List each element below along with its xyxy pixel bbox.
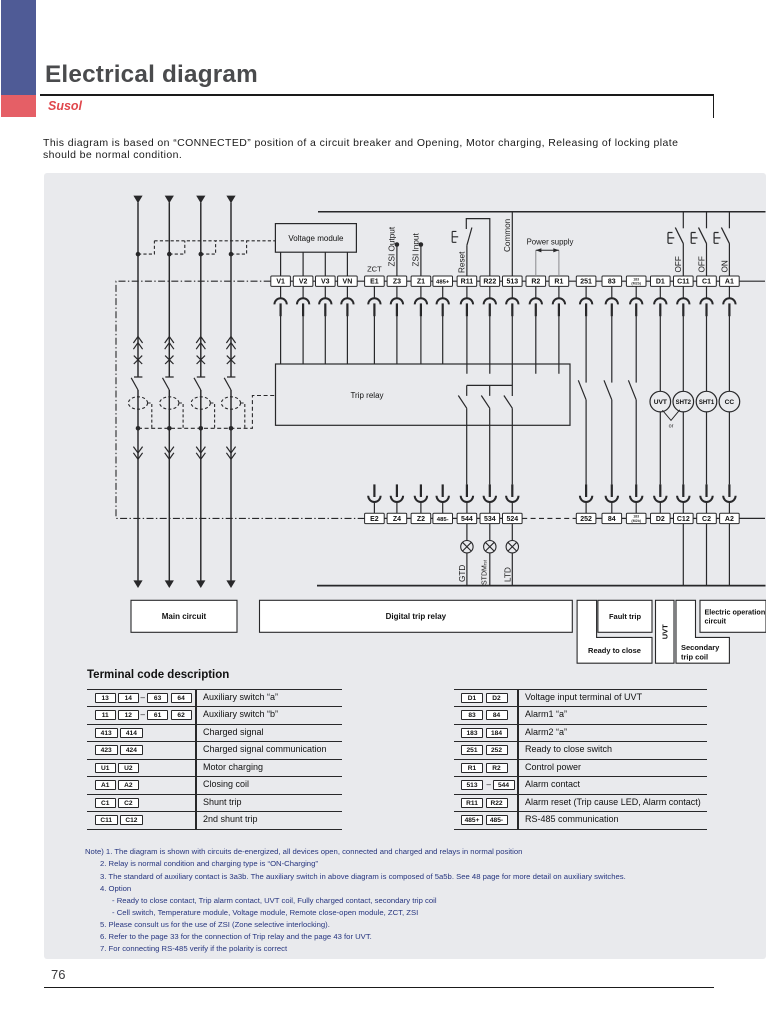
phase 2 CT dashed lead xyxy=(179,403,183,428)
wire UVT down xyxy=(659,412,661,485)
svg-text:circuit: circuit xyxy=(705,616,727,625)
secondary disconnect below E1 xyxy=(368,286,380,316)
Susol brand xyxy=(48,99,82,113)
svg-text:(M2b): (M2b) xyxy=(631,519,641,523)
wire contact to lamp terminal xyxy=(466,408,468,484)
terminal 84 xyxy=(602,513,622,523)
svg-text:D1: D1 xyxy=(656,279,665,286)
title rule xyxy=(40,94,714,96)
wire CC down xyxy=(728,412,730,485)
secondary disconnect below VN xyxy=(341,286,353,316)
svg-text:485-: 485- xyxy=(437,517,449,523)
svg-text:R2: R2 xyxy=(531,279,540,286)
secondary disconnect below R1 xyxy=(553,286,565,316)
secondary disconnect above 485- xyxy=(437,484,449,513)
wire LTD lamp upper xyxy=(511,524,513,541)
phase 3 drawout chevrons lower xyxy=(196,447,205,460)
phase 4 incoming arrow xyxy=(226,196,235,204)
phase 3 drawout chevrons upper xyxy=(196,337,205,350)
svg-text:Z4: Z4 xyxy=(393,516,401,523)
phase 2 current transformer xyxy=(160,397,179,409)
wire LTD lamp to rail xyxy=(511,553,513,586)
svg-text:513: 513 xyxy=(506,279,518,286)
phase 1 outgoing arrow xyxy=(133,580,142,588)
wire Z1 to trip relay xyxy=(420,316,422,364)
phase 2 junction dot (CT bus) xyxy=(167,426,172,431)
wire V1 to trip relay xyxy=(280,316,282,364)
secondary disconnect below 485+ xyxy=(437,286,449,316)
svg-text:UVT: UVT xyxy=(661,624,670,639)
svg-text:LTD: LTD xyxy=(503,567,512,582)
terminal R1 xyxy=(549,276,569,286)
terminal E1 xyxy=(365,276,385,286)
svg-text:OFF: OFF xyxy=(674,256,683,272)
header blue tab xyxy=(1,0,36,95)
wire R22 to trip relay xyxy=(489,316,491,364)
phase 3 test position cross xyxy=(197,356,205,364)
phase 1 current transformer xyxy=(128,397,147,409)
svg-text:E2: E2 xyxy=(370,516,379,523)
intro paragraph xyxy=(43,137,693,163)
secondary disconnect above 252 xyxy=(580,484,592,513)
svg-text:V1: V1 xyxy=(276,279,285,286)
svg-text:C1: C1 xyxy=(702,279,711,286)
svg-text:Ready to close: Ready to close xyxy=(588,646,641,655)
svg-text:ZCT: ZCT xyxy=(367,264,382,273)
terminal 83 xyxy=(602,276,622,286)
secondary disconnect below 183t xyxy=(630,286,642,316)
wire A1 to coil xyxy=(728,316,730,391)
page number xyxy=(51,967,65,982)
svg-text:524: 524 xyxy=(506,516,518,523)
wire voltage module to V3 xyxy=(324,252,326,276)
terminal C1 xyxy=(697,276,717,286)
secondary disconnect below Z1 xyxy=(415,286,427,316)
terminal 183b xyxy=(626,513,646,523)
secondary disconnect below D1 xyxy=(654,286,666,316)
svg-text:or: or xyxy=(669,423,674,429)
bottom row dashed gap 524-252 xyxy=(522,517,576,519)
wire R1 to trip relay xyxy=(558,316,560,364)
secondary disconnect above D2 xyxy=(654,484,666,513)
wire 513 to trip relay xyxy=(511,316,513,364)
trip relay 513 feeder and bracket xyxy=(467,364,513,396)
page title xyxy=(45,61,258,89)
power supply wires R2 R1 xyxy=(535,250,537,276)
secondary disconnect below R22 xyxy=(484,286,496,316)
phase 2 drawout chevrons upper xyxy=(165,337,174,350)
svg-text:485+: 485+ xyxy=(436,280,450,286)
bottom control rail xyxy=(317,585,766,587)
wire C11 to coil xyxy=(682,316,684,391)
top control rail xyxy=(318,211,766,213)
secondary disconnect below 251 xyxy=(580,286,592,316)
phase 3 junction dot (voltage tap) xyxy=(199,252,204,257)
svg-text:Voltage module: Voltage module xyxy=(288,234,344,243)
svg-text:V2: V2 xyxy=(299,279,308,286)
phase 1 junction dot (voltage tap) xyxy=(136,252,141,257)
secondary disconnect above E2 xyxy=(368,484,380,513)
wire C2 to bottom rail xyxy=(706,524,708,586)
terminal code table right xyxy=(454,689,707,829)
svg-text:CC: CC xyxy=(725,399,735,406)
svg-text:Common: Common xyxy=(503,218,512,252)
label Secondary trip coil (L-shape) xyxy=(676,600,729,663)
phase 3 current transformer xyxy=(191,397,210,409)
secondary disconnect above 534 xyxy=(484,484,496,513)
svg-text:VN: VN xyxy=(343,279,353,286)
pushbutton ON above A1 xyxy=(714,212,729,276)
wire SHT1 down xyxy=(706,412,708,485)
svg-text:Digital trip relay: Digital trip relay xyxy=(386,612,447,621)
secondary disconnect above 183b xyxy=(630,484,642,513)
phase 2 incoming arrow xyxy=(165,196,174,204)
phase 2 test position cross xyxy=(165,356,173,364)
terminal D1 xyxy=(651,276,671,286)
label UVT xyxy=(656,600,675,663)
phase 1 incoming arrow xyxy=(133,196,142,204)
terminal Z2 xyxy=(411,513,431,523)
phase 4 outgoing arrow xyxy=(226,580,235,588)
phase 4 voltage tap dashed jog xyxy=(231,241,247,254)
terminal A2 xyxy=(720,513,740,523)
svg-text:534: 534 xyxy=(484,516,496,523)
svg-text:UVT: UVT xyxy=(654,399,667,406)
terminal V2 xyxy=(293,276,313,286)
terminal Z4 xyxy=(387,513,407,523)
wire V3 to trip relay xyxy=(324,316,326,364)
svg-text:Z3: Z3 xyxy=(393,279,401,286)
phase 4 junction dot (voltage tap) xyxy=(229,252,234,257)
terminal 524 xyxy=(503,513,523,523)
svg-text:544: 544 xyxy=(461,516,473,523)
svg-text:251: 251 xyxy=(580,279,592,286)
wire voltage module to V2 xyxy=(302,252,304,276)
terminal C12 xyxy=(674,513,694,523)
wire voltage module to VN xyxy=(346,252,348,276)
phase 3 CT dashed lead xyxy=(210,403,214,428)
label Electric operation circuit xyxy=(700,600,766,632)
bottom terminal row chain xyxy=(384,517,765,519)
phase 4 CT dashed lead xyxy=(241,403,245,428)
svg-text:D2: D2 xyxy=(656,516,665,523)
svg-text:ON: ON xyxy=(720,260,729,272)
phase 1 test position cross xyxy=(134,356,142,364)
svg-text:Electric operation: Electric operation xyxy=(705,607,766,616)
wire V2 to trip relay xyxy=(302,316,304,364)
terminal V1 xyxy=(271,276,291,286)
svg-text:GTD: GTD xyxy=(458,565,467,582)
CT secondary dashed bus xyxy=(138,396,275,429)
notes xyxy=(85,847,522,856)
secondary disconnect above C2 xyxy=(700,484,712,513)
wire D1 to coil xyxy=(659,316,661,391)
terminal 183t xyxy=(626,276,646,286)
secondary disconnect below 513 xyxy=(506,286,518,316)
terminal 251 xyxy=(576,276,596,286)
phase 1 drawout chevrons upper xyxy=(133,337,142,350)
secondary disconnect below R2 xyxy=(530,286,542,316)
svg-text:Z2: Z2 xyxy=(417,516,425,523)
wire contact to lamp terminal xyxy=(511,408,513,484)
phase 3 wire upper xyxy=(200,203,202,377)
power supply dimension arrows xyxy=(536,248,559,252)
phase 3 wire lower xyxy=(200,390,202,581)
phase 1 wire lower xyxy=(137,390,139,581)
trip relay box xyxy=(276,364,571,425)
svg-text:252: 252 xyxy=(580,516,592,523)
terminal 544 xyxy=(457,513,477,523)
wire R11 to trip relay xyxy=(466,316,468,364)
svg-text:R11: R11 xyxy=(461,279,474,286)
wire A2 to bottom rail xyxy=(728,524,730,586)
svg-text:Fault trip: Fault trip xyxy=(609,612,641,621)
contact 251 blade xyxy=(578,380,586,400)
svg-text:A2: A2 xyxy=(725,516,734,523)
wire C12 to bottom rail xyxy=(682,524,684,586)
wire STDM lamp upper xyxy=(489,524,491,541)
svg-text:V3: V3 xyxy=(321,279,330,286)
wire 513 to top rail (common) xyxy=(511,212,513,276)
coil SHT2 xyxy=(673,391,694,412)
phase 4 drawout chevrons upper xyxy=(226,337,235,350)
terminal 513 xyxy=(503,276,523,286)
terminal code table left xyxy=(87,689,342,829)
phase 4 test position cross xyxy=(227,356,235,364)
secondary disconnect above C12 xyxy=(677,484,689,513)
svg-text:trip coil: trip coil xyxy=(681,653,708,662)
terminal R22 xyxy=(480,276,500,286)
phase 1 breaker contact xyxy=(131,377,142,390)
phase 2 drawout chevrons lower xyxy=(165,447,174,460)
phase 1 voltage tap dashed jog xyxy=(138,241,154,254)
wire GTD lamp upper xyxy=(466,524,468,541)
terminal C2 xyxy=(697,513,717,523)
wire STDM lamp to rail xyxy=(489,553,491,586)
terminal 534 xyxy=(480,513,500,523)
top terminal row chain xyxy=(290,280,765,282)
pushbutton OFF above C1 xyxy=(691,212,706,276)
secondary disconnect below Z3 xyxy=(391,286,403,316)
terminal Z3 xyxy=(387,276,407,286)
phase 4 current transformer xyxy=(221,397,240,409)
coil SHT1 xyxy=(696,391,717,412)
svg-text:STDMrst: STDMrst xyxy=(481,559,488,585)
lamp STDM xyxy=(484,541,496,553)
UVT-or-SHT2 annotation xyxy=(662,410,679,430)
wire GTD lamp to rail xyxy=(466,553,468,586)
trip relay internal stubs R11 R22 R2 R1 xyxy=(467,364,559,374)
wire VN to trip relay xyxy=(346,316,348,364)
secondary disconnect below V3 xyxy=(319,286,331,316)
wire E1 to trip relay xyxy=(373,316,375,364)
phase 4 drawout chevrons lower xyxy=(226,447,235,460)
secondary disconnect above A2 xyxy=(723,484,735,513)
phase 1 junction dot (CT bus) xyxy=(136,426,141,431)
phase 1 CT dashed lead xyxy=(148,403,152,428)
wire 251 contact down xyxy=(585,400,587,485)
wire 183 contact down xyxy=(635,400,637,485)
phase 3 incoming arrow xyxy=(196,196,205,204)
phase 4 wire lower xyxy=(230,390,232,581)
wire 485+ to trip relay xyxy=(442,316,444,364)
ZSI input stub and node xyxy=(420,245,422,277)
terminal C11 xyxy=(674,276,694,286)
contact 183 blade xyxy=(628,380,636,400)
svg-text:(M2b): (M2b) xyxy=(631,282,641,286)
terminal E2 xyxy=(365,513,385,523)
wire 251 to contact xyxy=(585,316,587,383)
svg-text:84: 84 xyxy=(608,516,616,523)
svg-text:OFF: OFF xyxy=(697,256,706,272)
phase 4 breaker contact xyxy=(224,377,235,390)
wire 183t to contact xyxy=(635,316,637,383)
wire SHT2 down xyxy=(682,412,684,485)
terminal V3 xyxy=(316,276,336,286)
secondary disconnect above Z2 xyxy=(415,484,427,513)
header red tab xyxy=(1,95,36,117)
alarm contact blade at 512.3 xyxy=(504,396,512,409)
phase 3 breaker contact xyxy=(194,377,205,390)
secondary disconnect below C11 xyxy=(677,286,689,316)
phase 2 outgoing arrow xyxy=(165,580,174,588)
svg-text:R22: R22 xyxy=(483,279,496,286)
secondary disconnect below V2 xyxy=(297,286,309,316)
wire 83 to contact xyxy=(611,316,613,383)
svg-text:SHT2: SHT2 xyxy=(676,400,692,406)
phase 2 junction dot (voltage tap) xyxy=(167,252,172,257)
phase 2 breaker contact xyxy=(163,377,174,390)
terminal code description heading xyxy=(87,669,229,681)
wire R2 to trip relay xyxy=(535,316,537,364)
terminal R2 xyxy=(526,276,546,286)
phase 1 wire upper xyxy=(137,203,139,377)
terminal 485+ xyxy=(433,276,453,286)
wire voltage module to V1 xyxy=(280,252,282,276)
terminal VN xyxy=(338,276,358,286)
svg-text:C11: C11 xyxy=(677,279,690,286)
phase 1 drawout chevrons lower xyxy=(133,447,142,460)
terminal D2 xyxy=(651,513,671,523)
label Digital trip relay xyxy=(260,600,573,632)
wire C1 to coil xyxy=(706,316,708,391)
reset pushbutton S1 xyxy=(452,219,490,276)
label Fault trip xyxy=(598,600,652,632)
secondary disconnect below 83 xyxy=(606,286,618,316)
wire contact to lamp terminal xyxy=(489,408,491,484)
svg-text:Z1: Z1 xyxy=(417,279,425,286)
svg-text:SHT1: SHT1 xyxy=(699,400,715,406)
terminal A1 xyxy=(720,276,740,286)
terminal Z1 xyxy=(411,276,431,286)
secondary disconnect above 84 xyxy=(606,484,618,513)
svg-text:Secondary: Secondary xyxy=(681,643,720,652)
phase 4 wire upper xyxy=(230,203,232,377)
svg-text:Reset: Reset xyxy=(458,251,467,273)
secondary disconnect below A1 xyxy=(723,286,735,316)
ZSI output stub and node xyxy=(396,245,398,277)
voltage module U1 xyxy=(275,224,356,253)
wire Z3 to trip relay xyxy=(396,316,398,364)
diagram panel xyxy=(44,173,766,959)
lamp LTD xyxy=(506,541,518,553)
svg-text:83: 83 xyxy=(608,279,616,286)
svg-text:R1: R1 xyxy=(554,279,563,286)
contact 83 blade xyxy=(604,380,612,400)
lamp GTD xyxy=(461,541,473,553)
svg-text:ZSI Output: ZSI Output xyxy=(387,226,396,266)
phase 3 voltage tap dashed jog xyxy=(201,241,216,254)
svg-text:Power supply: Power supply xyxy=(527,238,574,247)
svg-text:ZSI Input: ZSI Input xyxy=(411,233,420,267)
phase 3 junction dot (CT bus) xyxy=(199,426,204,431)
phase 2 voltage tap dashed jog xyxy=(169,241,185,254)
footer rule xyxy=(44,987,714,988)
svg-text:Trip relay: Trip relay xyxy=(350,391,383,400)
secondary disconnect below V1 xyxy=(274,286,286,316)
alarm contact blade at 466.7 xyxy=(458,396,466,409)
secondary disconnect above 544 xyxy=(461,484,473,513)
label Main circuit xyxy=(131,600,237,632)
phase 2 wire lower xyxy=(168,390,170,581)
svg-text:Main circuit: Main circuit xyxy=(162,612,207,621)
pushbutton OFF above C11 xyxy=(668,212,683,276)
label Ready to close (L-shape) xyxy=(577,600,652,663)
phase 4 junction dot (CT bus) xyxy=(229,426,234,431)
secondary disconnect below R11 xyxy=(461,286,473,316)
wire 83 contact down xyxy=(611,400,613,485)
voltage tap dashed bus xyxy=(154,240,275,242)
coil CC xyxy=(719,391,740,412)
svg-text:A1: A1 xyxy=(725,279,734,286)
secondary disconnect above Z4 xyxy=(391,484,403,513)
terminal R11 xyxy=(457,276,477,286)
alarm contact blade at 489.7 xyxy=(481,396,489,409)
phase 3 outgoing arrow xyxy=(196,580,205,588)
secondary disconnect above 524 xyxy=(506,484,518,513)
secondary disconnect below C1 xyxy=(700,286,712,316)
coil UVT xyxy=(650,391,671,412)
svg-text:E1: E1 xyxy=(370,279,379,286)
drawout boundary dash-dot frame xyxy=(116,281,365,518)
phase 2 wire upper xyxy=(168,203,170,377)
terminal 252 xyxy=(576,513,596,523)
terminal 485- xyxy=(433,513,453,523)
svg-text:C12: C12 xyxy=(677,516,690,523)
svg-text:C2: C2 xyxy=(702,516,711,523)
